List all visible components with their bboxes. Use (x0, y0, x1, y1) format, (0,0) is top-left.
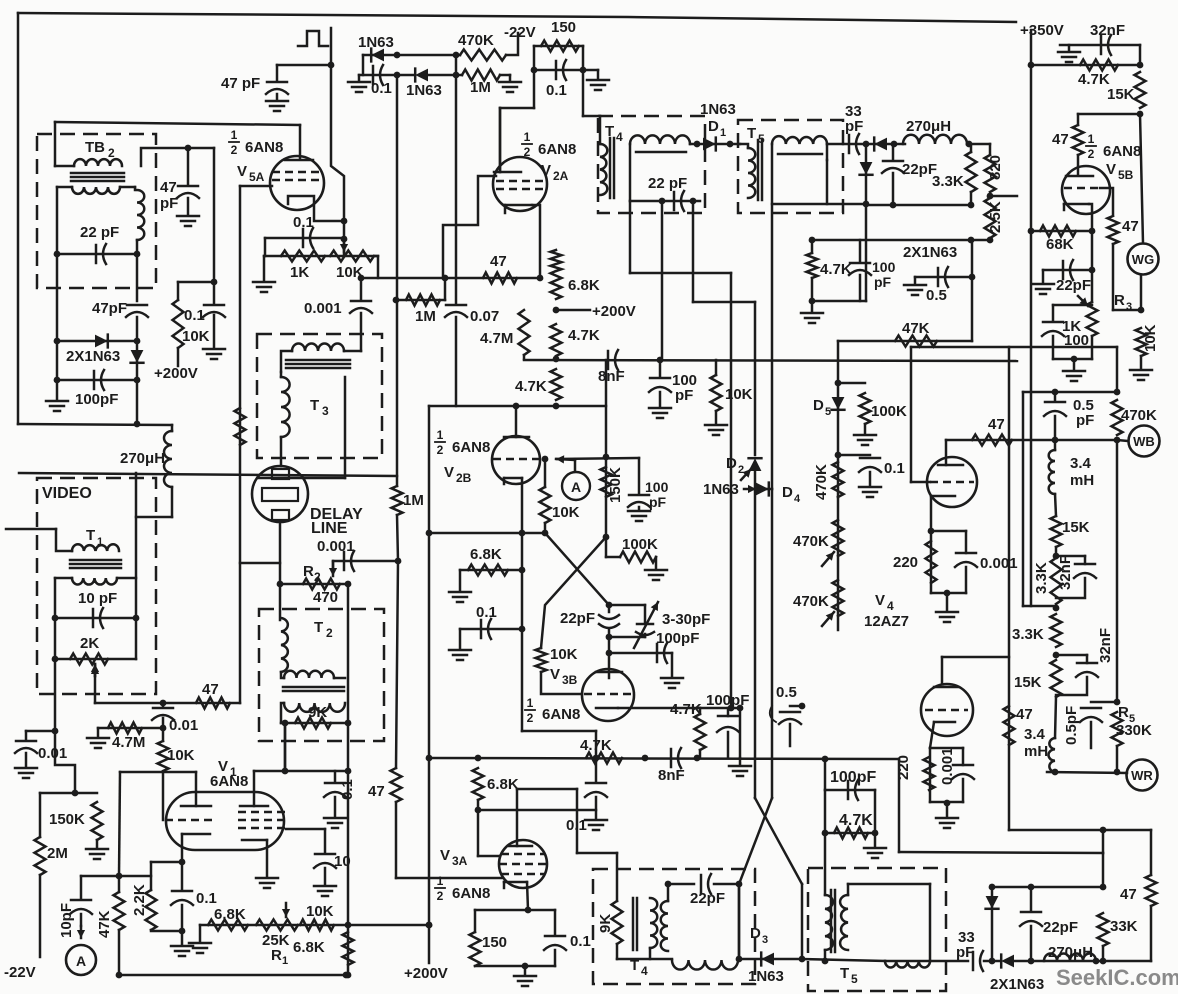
svg-text:0.1: 0.1 (546, 82, 567, 99)
svg-text:V: V (875, 592, 885, 609)
svg-text:2A: 2A (553, 169, 569, 183)
svg-text:6.8K: 6.8K (293, 939, 325, 956)
svg-text:1N63: 1N63 (700, 101, 736, 118)
svg-text:2M: 2M (47, 845, 68, 862)
svg-text:8nF: 8nF (598, 368, 625, 385)
svg-text:10K: 10K (552, 504, 580, 521)
svg-text:10: 10 (334, 853, 351, 870)
svg-text:2.5K: 2.5K (987, 201, 1004, 233)
svg-text:10K: 10K (167, 747, 195, 764)
svg-text:47: 47 (1016, 706, 1033, 723)
svg-text:47 pF: 47 pF (221, 75, 260, 92)
svg-text:15K: 15K (1107, 86, 1135, 103)
svg-text:WB: WB (1133, 434, 1155, 449)
svg-text:1: 1 (1088, 132, 1095, 146)
svg-text:470K: 470K (793, 593, 829, 610)
svg-text:1: 1 (97, 536, 103, 548)
svg-text:LINE: LINE (311, 520, 348, 537)
svg-text:22pF: 22pF (560, 610, 595, 627)
svg-text:1: 1 (527, 696, 534, 710)
svg-text:0.01: 0.01 (38, 745, 67, 762)
svg-text:9K: 9K (308, 704, 327, 721)
svg-text:0.5: 0.5 (776, 684, 797, 701)
svg-text:0.1: 0.1 (476, 604, 497, 621)
svg-text:3: 3 (1126, 301, 1132, 313)
svg-text:5A: 5A (249, 170, 265, 184)
svg-text:220: 220 (895, 755, 912, 780)
svg-text:150: 150 (551, 19, 576, 36)
svg-text:2X1N63: 2X1N63 (66, 348, 120, 365)
svg-text:6.8K: 6.8K (470, 546, 502, 563)
svg-text:V: V (237, 163, 247, 180)
svg-text:4: 4 (887, 599, 894, 613)
svg-text:pF: pF (675, 387, 693, 404)
svg-text:22pF: 22pF (1056, 277, 1091, 294)
svg-text:2: 2 (231, 143, 238, 157)
svg-text:R: R (303, 563, 314, 580)
svg-text:4.7K: 4.7K (820, 261, 852, 278)
svg-text:10K: 10K (550, 646, 578, 663)
svg-text:47: 47 (1120, 886, 1137, 903)
svg-text:5B: 5B (1118, 168, 1134, 182)
svg-text:0.01: 0.01 (169, 717, 198, 734)
svg-text:270μH: 270μH (906, 118, 951, 135)
svg-text:15K: 15K (1014, 674, 1042, 691)
svg-text:3: 3 (322, 404, 329, 418)
svg-text:6AN8: 6AN8 (210, 773, 248, 790)
svg-text:0.1: 0.1 (184, 307, 205, 324)
svg-text:A: A (571, 479, 581, 495)
svg-text:1: 1 (524, 130, 531, 144)
svg-text:V: V (541, 162, 551, 179)
svg-text:100pF: 100pF (75, 391, 118, 408)
svg-text:33K: 33K (1110, 918, 1138, 935)
svg-text:47: 47 (160, 179, 177, 196)
svg-text:9K: 9K (597, 914, 614, 933)
svg-text:22pF: 22pF (1043, 919, 1078, 936)
svg-text:mH: mH (1070, 472, 1094, 489)
svg-text:6AN8: 6AN8 (452, 439, 490, 456)
svg-text:2: 2 (738, 464, 744, 476)
svg-text:6AN8: 6AN8 (542, 706, 580, 723)
svg-text:47: 47 (202, 681, 219, 698)
svg-text:D: D (782, 484, 793, 501)
svg-text:4: 4 (794, 493, 801, 505)
svg-text:470K: 470K (793, 533, 829, 550)
svg-text:100: 100 (872, 259, 896, 275)
svg-text:0.07: 0.07 (470, 308, 499, 325)
svg-text:0.1: 0.1 (884, 460, 905, 477)
svg-text:1N63: 1N63 (748, 968, 784, 985)
svg-text:4.7M: 4.7M (480, 330, 513, 347)
svg-text:V: V (444, 464, 454, 481)
svg-text:10K: 10K (182, 328, 210, 345)
svg-text:100: 100 (645, 479, 669, 495)
svg-text:4.7K: 4.7K (670, 701, 702, 718)
svg-text:T: T (314, 619, 323, 636)
svg-text:4.7K: 4.7K (515, 378, 547, 395)
svg-text:V: V (1106, 161, 1116, 178)
svg-text:-22V: -22V (4, 964, 36, 981)
svg-text:220: 220 (893, 554, 918, 571)
svg-text:3.4: 3.4 (1024, 726, 1046, 743)
svg-text:270μH: 270μH (1048, 944, 1093, 961)
svg-text:1M: 1M (403, 492, 424, 509)
svg-text:47: 47 (1122, 218, 1139, 235)
svg-text:470: 470 (313, 589, 338, 606)
svg-text:10pF: 10pF (58, 903, 75, 938)
svg-text:WR: WR (1131, 768, 1153, 783)
svg-text:0.1: 0.1 (339, 779, 356, 800)
svg-text:2B: 2B (456, 471, 472, 485)
svg-text:A: A (76, 953, 86, 969)
svg-text:pF: pF (160, 195, 178, 212)
svg-text:+350V: +350V (1020, 22, 1064, 39)
svg-text:3: 3 (762, 934, 768, 946)
svg-text:68K: 68K (1046, 236, 1074, 253)
svg-text:3B: 3B (562, 673, 578, 687)
svg-text:47K: 47K (96, 910, 113, 938)
svg-text:V: V (440, 847, 450, 864)
svg-text:SeekIC.com: SeekIC.com (1056, 965, 1178, 990)
svg-text:2: 2 (326, 626, 333, 640)
svg-text:5: 5 (825, 406, 831, 418)
svg-text:2: 2 (108, 146, 115, 160)
svg-text:32nF: 32nF (1097, 628, 1114, 663)
svg-text:WG: WG (1132, 252, 1154, 267)
svg-text:470K: 470K (458, 32, 494, 49)
svg-text:3A: 3A (452, 854, 468, 868)
svg-text:22 pF: 22 pF (648, 175, 687, 192)
svg-text:2X1N63: 2X1N63 (903, 244, 957, 261)
svg-text:2.2K: 2.2K (131, 884, 148, 916)
svg-text:0.001: 0.001 (980, 555, 1018, 572)
svg-text:D: D (726, 455, 737, 472)
svg-text:100K: 100K (622, 536, 658, 553)
svg-text:150: 150 (482, 934, 507, 951)
svg-text:R: R (1114, 292, 1125, 309)
svg-text:2: 2 (437, 889, 444, 903)
svg-text:5: 5 (851, 972, 858, 986)
svg-text:22pF: 22pF (690, 890, 725, 907)
svg-text:15K: 15K (1062, 519, 1090, 536)
svg-text:1K: 1K (290, 264, 309, 281)
svg-text:6.8K: 6.8K (487, 776, 519, 793)
svg-text:820: 820 (987, 155, 1004, 180)
svg-text:1M: 1M (470, 79, 491, 96)
svg-text:-22V: -22V (504, 24, 536, 41)
svg-text:10 pF: 10 pF (78, 590, 117, 607)
svg-text:10K: 10K (1142, 324, 1159, 352)
svg-text:1: 1 (437, 874, 444, 888)
svg-text:150K: 150K (607, 467, 624, 503)
svg-text:6.8K: 6.8K (568, 277, 600, 294)
svg-text:0.001: 0.001 (304, 300, 342, 317)
svg-text:47pF: 47pF (92, 300, 127, 317)
svg-text:1M: 1M (415, 308, 436, 325)
svg-text:3.3K: 3.3K (1033, 562, 1050, 594)
svg-text:VIDEO: VIDEO (42, 485, 92, 502)
svg-text:4.7M: 4.7M (112, 734, 145, 751)
svg-text:6AN8: 6AN8 (538, 141, 576, 158)
svg-text:D: D (750, 925, 761, 942)
svg-text:0.1: 0.1 (566, 817, 587, 834)
svg-text:mH: mH (1024, 743, 1048, 760)
svg-text:R: R (1118, 704, 1129, 721)
svg-text:pF: pF (1076, 412, 1094, 429)
svg-text:V: V (550, 666, 560, 683)
svg-text:0.001: 0.001 (939, 747, 956, 785)
svg-text:330K: 330K (1116, 722, 1152, 739)
svg-text:47: 47 (1052, 131, 1069, 148)
svg-text:+200V: +200V (404, 965, 448, 982)
svg-text:+200V: +200V (154, 365, 198, 382)
svg-text:1N63: 1N63 (406, 82, 442, 99)
svg-text:0.1: 0.1 (371, 80, 392, 97)
svg-text:6AN8: 6AN8 (245, 139, 283, 156)
svg-text:4.7K: 4.7K (1078, 71, 1110, 88)
svg-text:R: R (271, 947, 282, 964)
svg-text:0.1: 0.1 (196, 890, 217, 907)
svg-text:100pF: 100pF (830, 769, 876, 786)
svg-text:D: D (813, 397, 824, 414)
svg-text:100K: 100K (871, 403, 907, 420)
svg-text:100pF: 100pF (656, 630, 699, 647)
svg-text:10K: 10K (725, 386, 753, 403)
svg-text:12AZ7: 12AZ7 (864, 613, 909, 630)
svg-text:+200V: +200V (592, 303, 636, 320)
svg-text:270μH: 270μH (120, 450, 165, 467)
svg-text:2: 2 (524, 145, 531, 159)
svg-text:3.3K: 3.3K (1012, 626, 1044, 643)
svg-text:1N63: 1N63 (703, 481, 739, 498)
svg-text:3.3K: 3.3K (932, 173, 964, 190)
svg-text:6.8K: 6.8K (214, 906, 246, 923)
svg-text:T: T (840, 965, 849, 982)
svg-text:6AN8: 6AN8 (452, 885, 490, 902)
svg-text:0.1: 0.1 (293, 214, 314, 231)
svg-text:2: 2 (1088, 147, 1095, 161)
svg-text:1: 1 (437, 428, 444, 442)
svg-text:pF: pF (649, 494, 667, 510)
svg-text:2: 2 (527, 711, 534, 725)
svg-text:10K: 10K (306, 903, 334, 920)
svg-text:1: 1 (720, 127, 726, 139)
svg-text:1: 1 (231, 128, 238, 142)
svg-text:1N63: 1N63 (358, 34, 394, 51)
svg-text:4: 4 (641, 964, 648, 978)
svg-text:TB: TB (85, 139, 105, 156)
svg-text:2X1N63: 2X1N63 (990, 976, 1044, 993)
svg-text:8nF: 8nF (658, 767, 685, 784)
svg-text:47: 47 (490, 253, 507, 270)
svg-text:T: T (86, 527, 95, 544)
svg-text:pF: pF (845, 118, 863, 135)
svg-text:pF: pF (874, 274, 892, 290)
svg-text:0.001: 0.001 (317, 538, 355, 555)
svg-text:150K: 150K (49, 811, 85, 828)
svg-text:4.7K: 4.7K (839, 812, 873, 829)
svg-text:D: D (708, 118, 719, 135)
svg-text:32nF: 32nF (1090, 22, 1125, 39)
svg-text:0.5pF: 0.5pF (1063, 706, 1080, 745)
svg-text:T: T (310, 397, 319, 414)
svg-text:470K: 470K (813, 464, 830, 500)
svg-text:4: 4 (616, 130, 623, 144)
svg-text:3-30pF: 3-30pF (662, 611, 710, 628)
svg-text:2K: 2K (80, 635, 99, 652)
svg-text:1: 1 (282, 955, 288, 967)
svg-text:470K: 470K (1121, 407, 1157, 424)
svg-text:2: 2 (437, 443, 444, 457)
svg-text:22 pF: 22 pF (80, 224, 119, 241)
svg-text:47K: 47K (902, 320, 930, 337)
svg-text:0.5: 0.5 (926, 287, 947, 304)
svg-text:47: 47 (368, 783, 385, 800)
svg-text:pF: pF (956, 944, 974, 961)
svg-text:0.1: 0.1 (570, 933, 591, 950)
svg-text:6AN8: 6AN8 (1103, 143, 1141, 160)
svg-text:47: 47 (988, 416, 1005, 433)
svg-text:3.4: 3.4 (1070, 455, 1092, 472)
svg-text:T: T (747, 125, 756, 142)
svg-text:4.7K: 4.7K (568, 327, 600, 344)
